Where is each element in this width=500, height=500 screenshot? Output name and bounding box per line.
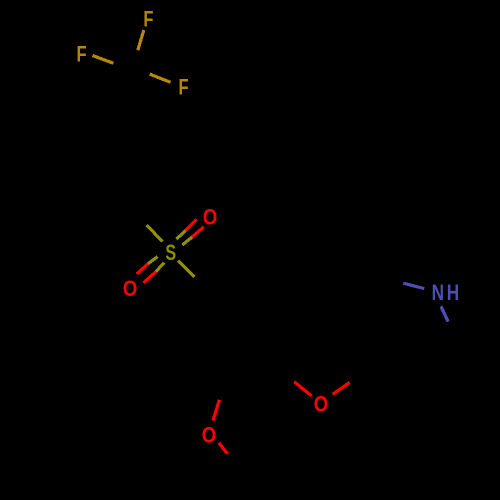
svg-text:NH: NH (432, 281, 462, 306)
svg-text:O: O (202, 424, 216, 448)
svg-text:F: F (178, 75, 188, 100)
svg-text:F: F (77, 42, 87, 67)
svg-text:O: O (123, 278, 137, 302)
svg-text:O: O (314, 392, 328, 417)
svg-text:O: O (203, 206, 217, 230)
svg-text:S: S (165, 242, 176, 266)
svg-text:F: F (143, 7, 153, 32)
